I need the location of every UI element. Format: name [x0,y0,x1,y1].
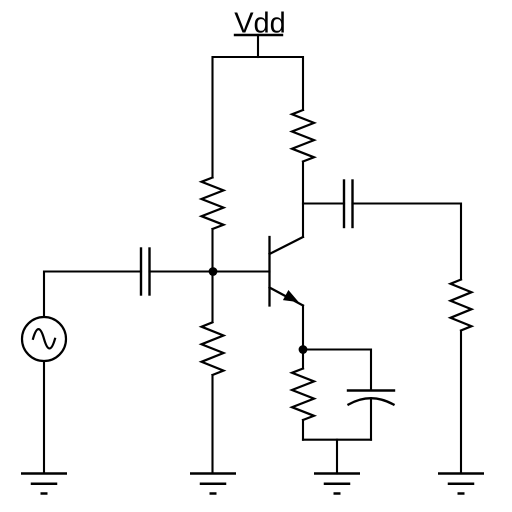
resistor R5 (load) [451,280,472,331]
AC source V1 [22,317,66,361]
wire C3 bottom to rail [370,398,372,439]
ground (emitter network) [315,474,359,494]
capacitor C1 [141,249,150,295]
ground (under source) [22,474,66,494]
wire emitter node to bypass branch [303,350,371,391]
power rail Vdd bar [235,34,282,36]
transistor Q1 collector lead [270,237,304,254]
wire input line corner to C1 [44,272,141,318]
wire top rail [213,57,304,178]
transistor Q1 base bar [268,237,270,306]
capacitor C2 [344,181,353,228]
node A (base junction dot) [209,267,218,276]
wire Vdd stem [257,35,259,57]
wire output tap to C2 [303,202,344,204]
wire stub to ground [336,440,338,474]
transistor Q1 emitter lead [270,288,304,306]
resistor R4 (emitter) [292,369,314,421]
node B (emitter junction dot) [299,345,308,354]
wire base node down to R3 [211,272,213,323]
wire R5 to ground [460,331,462,474]
wire R2 bottom to collector [302,162,304,238]
transistor Q1 emitter arrow [284,291,298,302]
resistor R1 [202,178,224,230]
wire C2 to load corner [353,204,462,280]
wire R1 bottom to base node [211,229,213,272]
wire source bottom to ground [43,361,45,474]
resistor R2 (collector) [292,110,314,162]
ground (under R5) [439,474,483,494]
wire emitter bottom rail [303,439,371,441]
capacitor C3 top plate [348,389,394,391]
ground (under R3) [191,474,235,494]
wire emitter node to R4 [302,350,304,369]
wire C1 to transistor base [150,270,270,272]
wire emitter down to node [302,306,304,350]
wire R4 to bottom rail [302,420,304,440]
wire R3 to ground [211,375,213,474]
capacitor C3 curved plate [349,398,394,404]
resistor R3 [202,322,224,375]
